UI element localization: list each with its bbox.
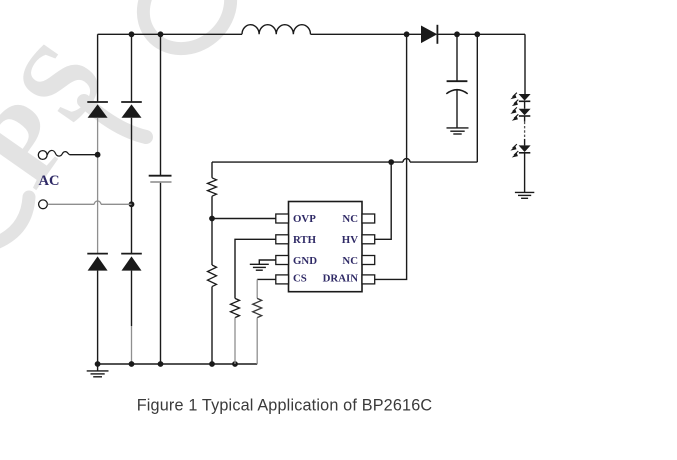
svg-text:NC: NC [342,255,358,267]
node bottom rail / mid branch [129,361,135,367]
wire top rail [98,33,525,35]
svg-text:Figure 1 Typical Application o: Figure 1 Typical Application of BP2616C [137,397,433,415]
svg-text:AC: AC [39,173,60,189]
resistor R2 [208,265,217,287]
wire mid bridge branch middle [131,118,133,254]
watermark hook fragment [0,197,29,243]
wire RTH pin [235,239,276,298]
wire CS pin [257,278,276,280]
ground LED [515,192,534,198]
watermark arc fragment [84,101,146,137]
svg-text:CS: CS [293,273,307,285]
watermark [0,21,129,207]
AC input terminal L [38,151,47,160]
IC U1 body [289,202,363,292]
LED1 [510,93,530,106]
pin NC2 [362,256,375,265]
watermark ring [126,0,248,66]
wire bus cap branch [160,34,162,364]
node HV tap [388,159,394,165]
inductor L1 [242,25,310,35]
crossover hop on OVP line [403,159,410,163]
wire output cap bottom lead [456,90,458,128]
wire mid bridge branch lower [131,271,133,326]
node OVP divider [209,216,215,222]
wire left bridge branch lower [97,271,99,364]
node top rail / output cap [454,31,460,37]
wire left bridge branch middle [97,118,99,254]
diode D1 [87,102,108,118]
wire bottom rail [98,363,258,365]
LED3 [510,144,530,157]
wire R2 top lead [211,219,213,266]
capacitor C2 electrolytic [446,81,467,94]
wire left bridge branch upper [97,34,99,102]
wire R4 bottom lead [256,318,258,364]
pin RTH [276,235,289,244]
wire R1 to OVP node [211,196,213,218]
wire LED2 to dashed [524,116,526,122]
node AC-L junction [95,152,101,158]
wire LED1-LED2 [524,101,526,108]
wire R2 bottom lead [211,287,213,364]
capacitor C1 [149,176,172,182]
wire GND pin [259,260,276,264]
wire CS vertical [256,279,258,298]
svg-text:HV: HV [342,234,358,246]
node top rail / sense [474,31,480,37]
LED2 [510,107,530,120]
wire mid bridge branch lower gray [131,326,133,364]
diode D3 [87,254,108,271]
pin OVP [276,214,289,223]
pin DRAIN [362,275,375,284]
wire AC-N with crossover hop [48,201,132,204]
wire R3 bottom lead [234,318,236,364]
ground main [87,364,109,377]
wire DRAIN pin [375,34,407,279]
node bottom rail / left branch [95,361,101,367]
wire dashed to LED3 [524,139,526,146]
wire AC-L to bridge [70,154,98,156]
wire OVP sense line [212,161,477,163]
node bottom rail / R3 [232,361,238,367]
node top rail / drain [404,31,410,37]
svg-text:NC: NC [342,213,358,225]
diode D2 [121,102,142,118]
svg-text:DRAIN: DRAIN [323,273,359,285]
node bottom rail / cap branch [158,361,164,367]
node bottom rail / R2 [209,361,215,367]
wire dashed LED continuation [524,122,526,139]
node top rail / mid branch [129,31,135,37]
wire R1 top lead [211,162,213,178]
resistor R4 [253,298,262,317]
ground output cap [447,128,469,134]
pin HV [362,235,375,244]
AC input terminal N [39,200,48,209]
wire mid bridge branch upper [131,34,133,102]
wire output sense vertical [476,34,478,162]
ground GND pin [250,264,269,270]
fuse [47,150,69,156]
wire OVP pin [212,218,276,220]
pin GND [276,256,289,265]
resistor R1 [208,178,217,196]
wire HV pin [375,162,392,239]
wire LED branch top [524,34,526,94]
wire output cap top lead [456,34,458,81]
pin NC1 [362,214,375,223]
pin CS [276,275,289,284]
diode D4 [121,254,142,271]
wire LED3 to ground [524,153,526,193]
svg-text:RTH: RTH [293,234,317,246]
resistor R3 [231,298,240,317]
diode D5 [421,25,437,44]
svg-text:GND: GND [293,255,317,267]
node top rail / cap branch [158,31,164,37]
svg-text:OVP: OVP [293,213,316,225]
node AC-N junction [129,201,135,207]
